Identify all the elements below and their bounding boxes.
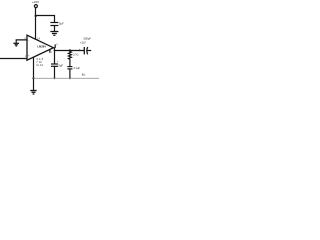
ground G3 xyxy=(30,90,36,92)
capacitor C3 0.1uF xyxy=(67,66,72,68)
junction dot zobel node xyxy=(69,49,72,52)
svg-text:LM384: LM384 xyxy=(37,44,46,48)
wire U1 ground pins down xyxy=(33,57,35,90)
pin 8 tick xyxy=(54,44,56,48)
junction dot supply node xyxy=(35,15,37,17)
wire output horizontal xyxy=(55,50,85,52)
op-amp U1 LM384 xyxy=(27,35,53,60)
wire C4 to output end xyxy=(87,50,91,52)
ground G1 xyxy=(50,31,58,33)
resistor R1 2.7 ohm xyxy=(68,51,71,60)
svg-text:+11V: +11V xyxy=(80,41,86,45)
terminal VCC xyxy=(34,5,37,8)
svg-text:5µF: 5µF xyxy=(58,64,63,68)
junction dot C2 rail xyxy=(54,77,56,79)
wire output node down to C2 xyxy=(54,51,56,65)
svg-text:2.7Ω: 2.7Ω xyxy=(73,53,78,56)
pin 1 stub xyxy=(49,49,51,52)
wire output from apex xyxy=(53,48,54,51)
junction dot output node xyxy=(54,50,56,52)
wire input to pin 2 xyxy=(0,58,27,60)
capacitor C2 5uF xyxy=(51,63,58,65)
svg-text:11, 12: 11, 12 xyxy=(36,64,43,67)
junction dot C3 rail xyxy=(69,77,71,79)
svg-text:500µF: 500µF xyxy=(84,37,92,41)
svg-text:8Ω: 8Ω xyxy=(82,73,85,77)
svg-text:0.1µF: 0.1µF xyxy=(74,67,81,70)
wire C1 to ground xyxy=(54,26,56,32)
ground G2 xyxy=(13,42,19,44)
wire inverting input to ground xyxy=(16,40,27,43)
wire supply node to C1 xyxy=(36,16,55,23)
svg-text:5µF: 5µF xyxy=(59,22,64,26)
wire C2 to rail xyxy=(54,66,56,78)
capacitor C4 plates xyxy=(83,47,85,54)
wire C3 to rail xyxy=(69,69,71,78)
junction dot ground rail xyxy=(32,77,34,79)
wire R1 to C3 xyxy=(69,60,71,67)
ground rail xyxy=(34,77,100,79)
capacitor C1 5uF xyxy=(50,22,58,24)
wire VCC down to U1 pin 14 xyxy=(35,8,37,40)
svg-text:+22V: +22V xyxy=(32,0,39,4)
